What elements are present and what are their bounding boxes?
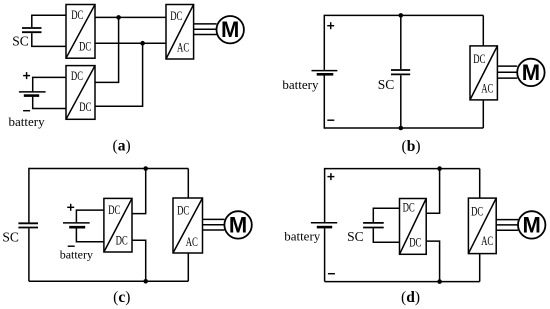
dc-dc converter U2 (a) xyxy=(66,66,95,120)
svg-text:DC: DC xyxy=(79,40,91,54)
capacitor SC (a) xyxy=(22,28,42,32)
svg-text:DC: DC xyxy=(170,9,182,23)
wire left branch upper (c) xyxy=(28,168,30,223)
svg-text:(a): (a) xyxy=(113,138,131,155)
label U6 AC (c) xyxy=(186,235,198,249)
wire SC branch upper (b) xyxy=(400,15,402,69)
dc-dc converter U1 (a) xyxy=(66,5,95,59)
label battery (d) xyxy=(284,229,321,244)
battery B2 (b) xyxy=(312,71,338,75)
label U5 DC top (c) xyxy=(108,203,120,217)
label U3 DC (a) xyxy=(170,9,182,23)
wire right branch lower (d) xyxy=(479,254,481,282)
svg-text:SC: SC xyxy=(378,77,395,92)
label battery (b) xyxy=(282,77,319,92)
label SC (d) xyxy=(347,229,364,244)
wire three-phase lines (c) xyxy=(203,219,225,230)
junction node top (b) xyxy=(399,13,404,18)
battery B3 (c) xyxy=(63,223,90,227)
wire right branch upper (c) xyxy=(187,169,189,199)
wire left branch upper (d) xyxy=(324,168,326,222)
label U5 DC bottom (c) xyxy=(116,234,128,248)
wire U5 bottom output to bus (c) xyxy=(132,240,146,281)
svg-text:M: M xyxy=(522,60,540,85)
svg-text:battery: battery xyxy=(60,248,93,262)
svg-text:DC: DC xyxy=(403,201,415,215)
wire U2 bottom output to bus (a) xyxy=(95,43,143,106)
svg-text:SC: SC xyxy=(347,229,364,244)
svg-text:SC: SC xyxy=(12,33,29,48)
wire three-phase lines (a) xyxy=(194,24,217,35)
battery B4 minus sign (d) xyxy=(328,273,335,275)
capacitor SC (c) xyxy=(18,223,38,227)
wire top bus (b) xyxy=(324,14,483,16)
wire right branch lower (b) xyxy=(482,100,484,128)
svg-text:SC: SC xyxy=(2,230,19,245)
label U6 DC (c) xyxy=(177,204,189,218)
label U8 AC (d) xyxy=(481,234,493,248)
junction node bus bottom (a) xyxy=(140,41,145,46)
svg-text:battery: battery xyxy=(9,114,46,129)
junction node bus top (a) xyxy=(116,15,121,20)
label SC (c) xyxy=(2,230,19,245)
label battery (c) xyxy=(60,248,93,262)
svg-text:M: M xyxy=(229,212,247,237)
junction node bottom (c) xyxy=(143,279,148,284)
svg-text:(c): (c) xyxy=(113,289,130,306)
svg-text:battery: battery xyxy=(284,229,321,244)
wire bottom bus (c) xyxy=(29,280,188,282)
battery B1 (a) xyxy=(19,92,46,96)
svg-text:AC: AC xyxy=(177,41,189,55)
wire battery top lead (c) xyxy=(76,210,104,222)
label U1 DC top (a) xyxy=(71,8,83,22)
label U3 AC (a) xyxy=(177,41,189,55)
label U4 AC (b) xyxy=(481,82,493,96)
battery B1 plus sign (a) xyxy=(23,72,30,79)
label U7 DC bottom (d) xyxy=(409,235,421,249)
dc-ac inverter U6 (c) xyxy=(173,198,203,253)
motor M (d) xyxy=(518,211,545,238)
battery B3 plus sign (c) xyxy=(67,204,74,211)
wire left branch lower (c) xyxy=(28,228,30,281)
junction node bottom (d) xyxy=(437,279,442,284)
wire SC top lead (a) xyxy=(32,15,66,27)
svg-text:M: M xyxy=(523,212,541,237)
wire bottom bus (b) xyxy=(324,127,483,129)
dc-ac inverter U4 (b) xyxy=(470,46,497,100)
svg-text:DC: DC xyxy=(473,52,485,66)
motor M (a) xyxy=(217,16,244,43)
wire top bus (d) xyxy=(325,168,480,170)
svg-text:(b): (b) xyxy=(402,138,421,155)
wire left branch upper (b) xyxy=(323,15,325,70)
svg-text:DC: DC xyxy=(177,204,189,218)
wire right branch upper (d) xyxy=(479,169,481,199)
wire right branch lower (c) xyxy=(187,253,189,281)
label U4 DC (b) xyxy=(473,52,485,66)
battery B2 plus sign (b) xyxy=(327,22,334,29)
wire U2 top output to bus (a) xyxy=(95,17,119,82)
wire dc bus bottom (a) xyxy=(95,42,166,44)
svg-text:AC: AC xyxy=(481,234,493,248)
label U2 DC bottom (a) xyxy=(79,100,91,114)
wire left branch lower (b) xyxy=(323,76,325,129)
battery B4 plus sign (d) xyxy=(327,173,334,180)
wire SC branch lower (b) xyxy=(400,75,402,128)
junction node bottom (b) xyxy=(399,126,404,131)
wire dc bus top (a) xyxy=(95,16,166,18)
label U2 DC top (a) xyxy=(71,69,83,83)
svg-text:AC: AC xyxy=(481,82,493,96)
label SC (b) xyxy=(378,77,395,92)
label (a) xyxy=(113,138,131,155)
svg-text:AC: AC xyxy=(186,235,198,249)
dc-dc converter U5 (c) xyxy=(104,198,132,252)
label (d) xyxy=(401,289,420,306)
wire U7 top output to bus (d) xyxy=(426,169,439,214)
wire top bus (c) xyxy=(29,168,188,170)
svg-text:DC: DC xyxy=(71,69,83,83)
svg-text:DC: DC xyxy=(108,203,120,217)
wire battery top lead (a) xyxy=(33,77,66,91)
label U8 DC (d) xyxy=(471,205,483,219)
wire SC bottom lead (a) xyxy=(32,33,66,46)
battery B2 minus sign (b) xyxy=(327,119,334,121)
wire battery bottom lead (a) xyxy=(33,97,66,109)
capacitor SC (d) xyxy=(363,223,384,228)
wire U5 top output to bus (c) xyxy=(132,169,146,214)
junction node top (d) xyxy=(437,166,442,171)
dc-dc converter U7 (d) xyxy=(400,199,427,255)
dc-ac inverter U3 (a) xyxy=(166,5,194,60)
dc-ac inverter U8 (d) xyxy=(468,198,496,254)
svg-text:DC: DC xyxy=(471,205,483,219)
motor M (b) xyxy=(517,59,544,86)
junction node top (c) xyxy=(143,166,148,171)
wire three-phase lines (d) xyxy=(496,220,518,231)
label (c) xyxy=(113,289,130,306)
battery B1 minus sign (a) xyxy=(23,110,30,112)
svg-text:battery: battery xyxy=(282,77,319,92)
motor M (c) xyxy=(224,211,251,238)
svg-text:DC: DC xyxy=(409,235,421,249)
svg-text:(d): (d) xyxy=(401,289,420,306)
label (b) xyxy=(402,138,421,155)
wire bottom bus (d) xyxy=(325,281,480,283)
svg-text:M: M xyxy=(221,17,239,42)
wire battery bottom lead (c) xyxy=(76,228,104,241)
wire SC bottom lead (d) xyxy=(373,228,399,242)
label SC (a) xyxy=(12,33,29,48)
label U7 DC top (d) xyxy=(403,201,415,215)
battery B3 minus sign (c) xyxy=(68,245,75,247)
wire left branch lower (d) xyxy=(324,228,326,281)
battery B4 (d) xyxy=(311,223,337,227)
label U1 DC bottom (a) xyxy=(79,40,91,54)
label battery (a) xyxy=(9,114,46,129)
wire SC top lead (d) xyxy=(373,208,399,222)
svg-text:DC: DC xyxy=(116,234,128,248)
wire three-phase lines (b) xyxy=(497,66,517,78)
capacitor SC (b) xyxy=(391,70,410,74)
svg-text:DC: DC xyxy=(71,8,83,22)
wire right branch upper (b) xyxy=(482,15,484,46)
svg-text:DC: DC xyxy=(79,100,91,114)
wire U7 bottom output to bus (d) xyxy=(426,241,439,282)
